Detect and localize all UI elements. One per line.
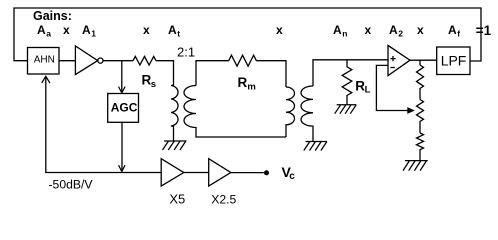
svg-text:f: f — [457, 28, 460, 38]
svg-text:m: m — [247, 81, 255, 92]
svg-text:2: 2 — [398, 28, 403, 38]
svg-text:n: n — [342, 28, 347, 38]
svg-text:A: A — [37, 23, 46, 37]
svg-text:A: A — [333, 23, 342, 37]
svg-text:t: t — [177, 28, 180, 38]
svg-text:c: c — [289, 171, 295, 182]
svg-text:s: s — [151, 79, 156, 90]
svg-text:1: 1 — [91, 28, 96, 38]
svg-text:X5: X5 — [169, 192, 185, 207]
svg-text:R: R — [238, 75, 248, 90]
svg-text:x: x — [365, 23, 372, 37]
svg-text:Gains:: Gains: — [33, 9, 72, 23]
svg-text:A: A — [82, 23, 91, 37]
svg-text:x: x — [417, 23, 424, 37]
svg-text:AHN: AHN — [34, 55, 55, 66]
svg-text:2:1: 2:1 — [177, 45, 195, 60]
svg-text:a: a — [46, 28, 51, 38]
svg-text:A: A — [448, 23, 457, 37]
svg-text:-50dB/V: -50dB/V — [49, 178, 94, 192]
svg-text:AGC: AGC — [111, 100, 138, 114]
svg-text:A: A — [168, 23, 177, 37]
svg-text:A: A — [389, 23, 398, 37]
svg-text:X2.5: X2.5 — [211, 193, 236, 207]
svg-text:x: x — [143, 23, 150, 37]
svg-text:=1: =1 — [476, 23, 492, 38]
svg-text:LPF: LPF — [441, 52, 467, 68]
svg-text:x: x — [276, 23, 283, 37]
svg-text:x: x — [63, 23, 70, 37]
svg-text:L: L — [365, 85, 371, 96]
